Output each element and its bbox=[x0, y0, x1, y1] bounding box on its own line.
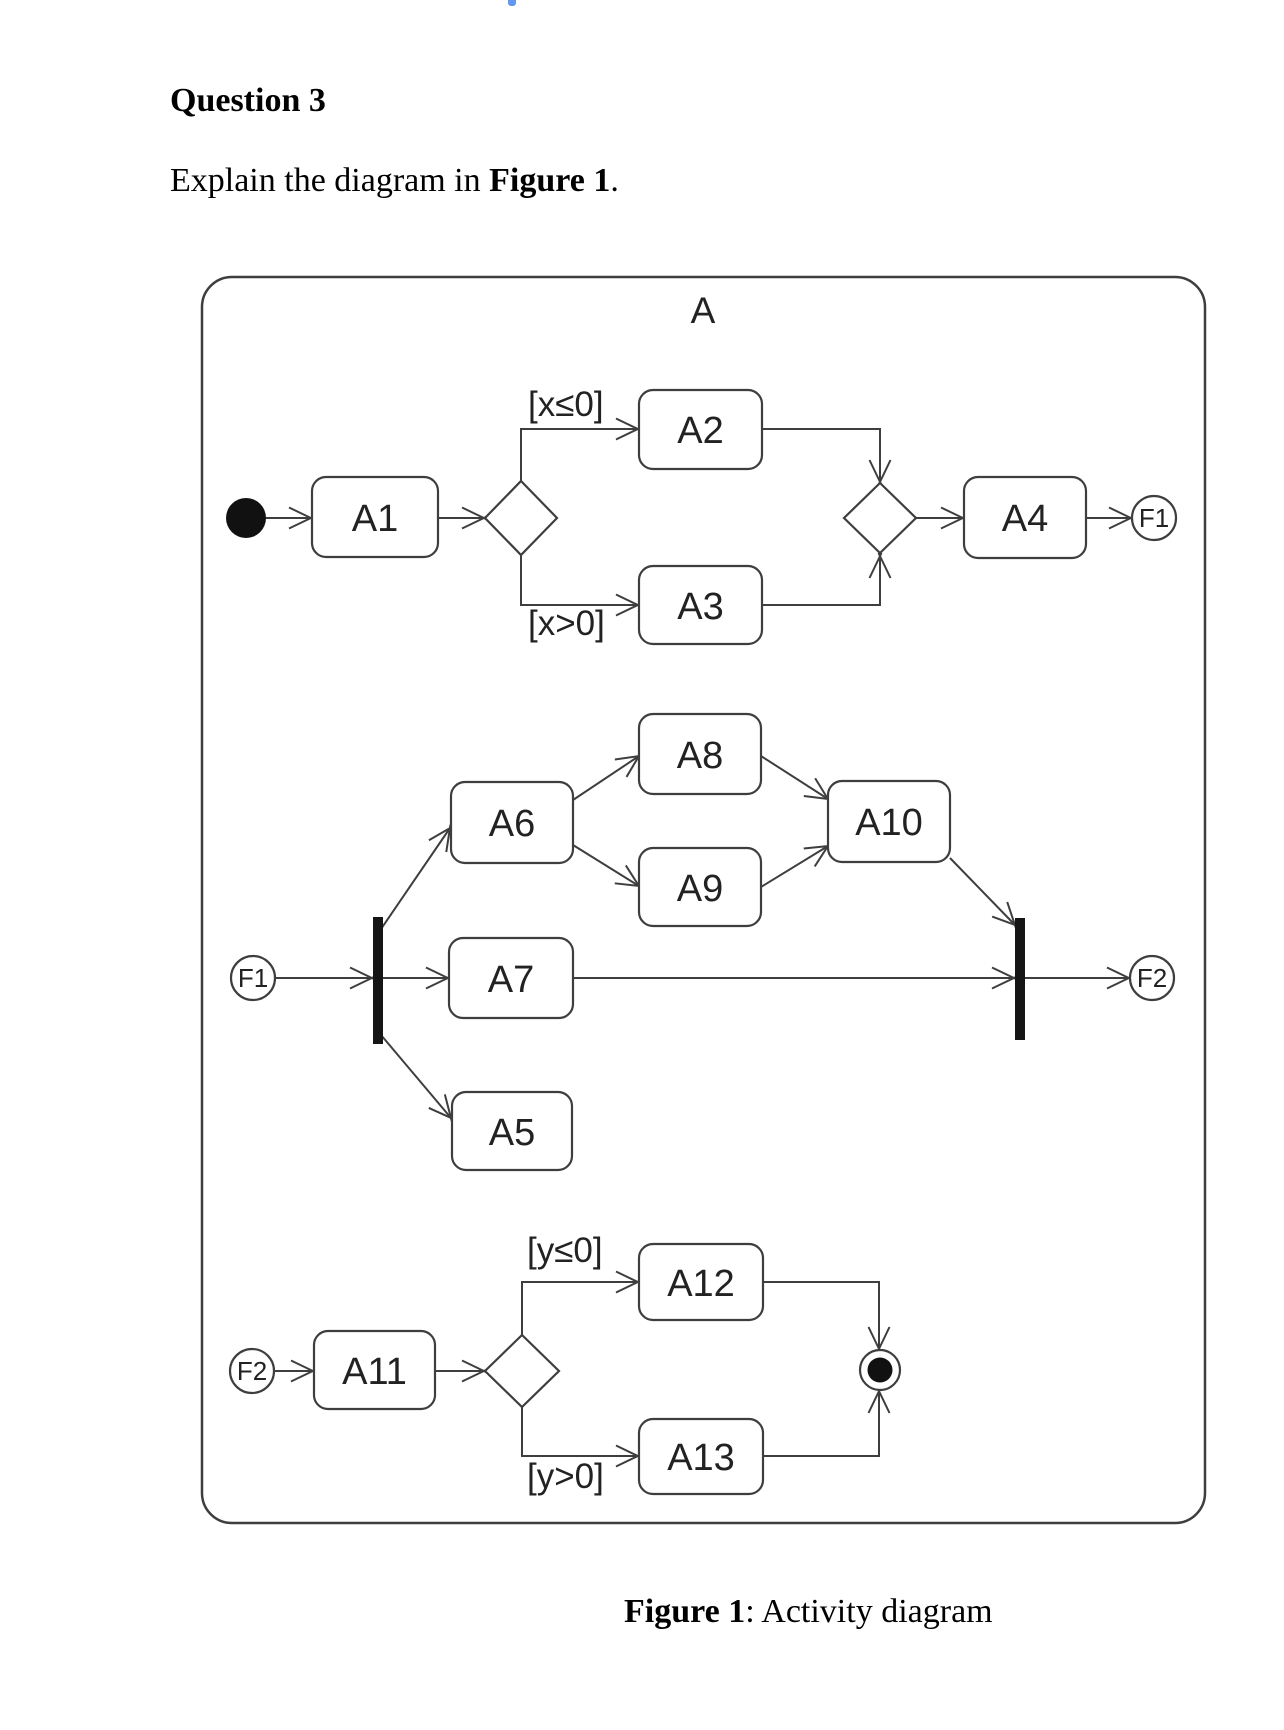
svg-text:[x>0]: [x>0] bbox=[528, 604, 605, 643]
svg-text:A12: A12 bbox=[667, 1263, 735, 1305]
svg-text:F2: F2 bbox=[237, 1356, 267, 1386]
svg-text:A4: A4 bbox=[1002, 498, 1048, 540]
svg-text:A10: A10 bbox=[855, 802, 923, 844]
svg-text:F2: F2 bbox=[1137, 963, 1167, 993]
svg-text:A13: A13 bbox=[667, 1437, 735, 1479]
svg-text:A5: A5 bbox=[489, 1112, 535, 1154]
svg-text:[y≤0]: [y≤0] bbox=[527, 1231, 603, 1270]
svg-text:F1: F1 bbox=[1139, 503, 1169, 533]
svg-text:A8: A8 bbox=[677, 735, 723, 777]
svg-text:A1: A1 bbox=[352, 498, 398, 540]
svg-text:A3: A3 bbox=[677, 586, 723, 628]
svg-text:A: A bbox=[691, 290, 716, 331]
svg-text:A6: A6 bbox=[489, 803, 535, 845]
svg-text:A9: A9 bbox=[677, 868, 723, 910]
svg-text:A7: A7 bbox=[488, 959, 534, 1001]
svg-text:[y>0]: [y>0] bbox=[527, 1457, 604, 1496]
svg-text:F1: F1 bbox=[238, 963, 268, 993]
svg-text:A2: A2 bbox=[677, 410, 723, 452]
svg-text:A11: A11 bbox=[342, 1351, 407, 1393]
svg-text:[x≤0]: [x≤0] bbox=[528, 385, 604, 424]
